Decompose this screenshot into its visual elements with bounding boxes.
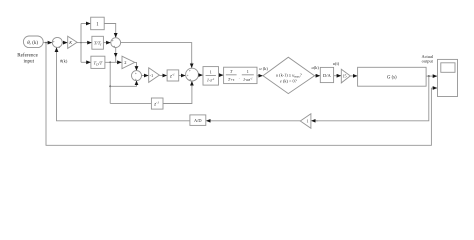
op-amp gain 2 [122, 56, 135, 68]
wire S1 to amplifier K [62, 42, 67, 44]
transducer amp left-pointing [300, 114, 311, 129]
wire T/Ti to circle A left [103, 42, 110, 44]
decision diamond [263, 57, 315, 93]
wire D branch vertical [109, 62, 111, 103]
wire K tip to branch node [77, 42, 92, 44]
svg-text:G (s): G (s) [387, 75, 397, 80]
box I gain T/Ti [92, 36, 104, 49]
svg-text:θ(k): θ(k) [60, 58, 68, 63]
wire A/D to S1 bottom [57, 48, 190, 121]
svg-text:T/TI: T/TI [94, 41, 102, 47]
reference input oval [23, 36, 43, 48]
wire circle C to amp -1 [142, 75, 149, 77]
svg-text:u(t): u(t) [333, 61, 340, 66]
wire feedback tap down to A/D line [316, 76, 429, 121]
svg-text:z-1: z-1 [169, 73, 175, 80]
wire D branch to delay z-1 lower box [110, 102, 151, 104]
wire circle B to integrator box [198, 74, 202, 76]
svg-text:+: + [187, 74, 189, 78]
wire triangle 2 to circle C top [135, 62, 137, 66]
svg-text:+: + [58, 46, 60, 50]
box D/A [320, 67, 333, 82]
svg-text:+: + [135, 77, 137, 81]
box plant G(s) [358, 67, 427, 86]
wire box1 to circle A top [104, 24, 116, 38]
svg-text:1: 1 [247, 69, 249, 74]
node reference branch junction [45, 42, 47, 44]
box D gain TD/T [91, 56, 105, 68]
node D branch to circle C bottom [109, 85, 111, 87]
wire amp to plant G(s) [350, 75, 357, 77]
wire D/A to amp 15 [334, 75, 341, 77]
wire branch vertical [80, 24, 82, 63]
svg-text:15: 15 [343, 74, 347, 79]
svg-text:1-z-1: 1-z-1 [207, 77, 215, 83]
wire reference branch bottom to recorder lower port [46, 43, 431, 146]
wire integrator to filter box [219, 74, 224, 76]
wire diamond to D/A [315, 75, 321, 77]
svg-text:1: 1 [210, 69, 212, 74]
svg-text:1: 1 [307, 119, 309, 124]
svg-text:+: + [112, 39, 114, 43]
summing junction C [132, 71, 142, 81]
node feedback tap [428, 75, 430, 77]
recorder device window [441, 63, 455, 73]
wire to box TD/T [81, 61, 91, 63]
delay z-1 upper box [167, 70, 179, 81]
svg-text:A/D: A/D [194, 118, 202, 123]
wire z-1 lower to circle B bottom [163, 86, 192, 104]
op-amp gain 15 [341, 69, 350, 83]
svg-text:+: + [189, 69, 191, 73]
wire to box 1 [81, 23, 90, 25]
op-amp gain -1 [149, 68, 160, 83]
wire transducer to A/D [206, 120, 300, 122]
wire D branch to circle C bottom [110, 85, 136, 86]
svg-text:output: output [422, 59, 434, 64]
svg-text:2: 2 [124, 60, 126, 65]
box P gain 1 [91, 17, 105, 30]
svg-text:.: . [239, 75, 240, 80]
text theta_r(k) in oval [27, 41, 38, 46]
svg-text:z-1: z-1 [153, 101, 159, 108]
svg-text:-1: -1 [150, 73, 154, 78]
box A/D [190, 115, 206, 126]
svg-text:T+τ: T+τ [228, 77, 235, 82]
svg-text:+: + [113, 45, 115, 49]
svg-text:u (k): u (k) [259, 66, 268, 71]
wire G(s) to recorder top port [426, 75, 437, 77]
wire circle A bottom down to D row [115, 48, 117, 58]
delay z-1 lower box [151, 98, 163, 109]
svg-text:K: K [68, 40, 72, 45]
fractions in filter box [226, 69, 254, 82]
svg-text:D/A: D/A [323, 73, 332, 78]
fraction 1/(1-z-1) in integrator box [206, 69, 216, 82]
wire TD/T output to triangle 2 [105, 61, 122, 63]
summing junction A [111, 38, 121, 48]
wire filter to diamond [257, 75, 263, 77]
node PID branch [80, 42, 82, 44]
summing junction S1 [52, 37, 62, 47]
svg-text:θr (k): θr (k) [27, 41, 38, 46]
svg-text:+: + [53, 40, 55, 44]
recorder device outer [438, 59, 458, 96]
wire circle A right to circle B top [121, 43, 192, 68]
op-amp gain K [68, 36, 77, 48]
svg-text:1-az-1: 1-az-1 [243, 77, 253, 83]
svg-text:TD/T: TD/T [94, 60, 103, 66]
svg-text:input: input [24, 58, 35, 64]
wire amp -1 to z-1 box [159, 75, 166, 77]
box integrator 1/(1-z-1) [203, 67, 219, 86]
svg-text:u(k): u(k) [312, 65, 320, 70]
summing junction B [186, 68, 199, 81]
svg-text:+: + [189, 78, 191, 82]
node D branch down [109, 61, 111, 63]
wire reference oval to summing junction S1 [43, 42, 52, 44]
svg-text:e (k) > 0?: e (k) > 0? [280, 78, 297, 83]
box filter T/(T+tau) 1/(1-az-1) [224, 67, 257, 83]
svg-text:T: T [230, 69, 233, 74]
svg-text:+: + [135, 72, 137, 76]
svg-text:1: 1 [96, 22, 99, 27]
wire z-1 box to circle B left [179, 75, 186, 77]
